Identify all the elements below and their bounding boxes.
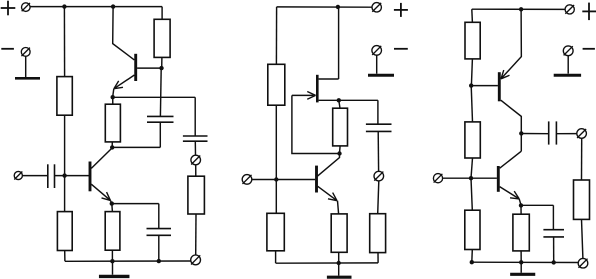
arrow Q2 emitter NPN — [114, 81, 123, 89]
wire R15 bottom to rail — [520, 251, 522, 262]
resistor R7 divider top circuit 2 — [268, 64, 285, 105]
wire rail to ground circuit 2 — [338, 263, 340, 276]
wire Q2 collector to rail — [113, 7, 135, 60]
wire emitter node to C3 — [112, 203, 159, 205]
arrow Q3 emitter NPN — [328, 193, 337, 201]
wire R13 bottom to input node — [471, 158, 473, 178]
transistor Q5 base bar — [498, 72, 501, 101]
wire Q2 emitter diagonal — [114, 75, 134, 89]
capacitor C3 bypass top plate — [147, 228, 172, 230]
wire Q1 collector diagonal — [91, 148, 112, 169]
capacitor C8 bypass bottom plate — [543, 236, 564, 238]
node C8/rail junction — [552, 260, 556, 264]
capacitor C5 output top plate — [366, 123, 392, 125]
wire Q5 emitter to rail — [501, 9, 521, 79]
node Q1 collector junction — [110, 145, 114, 149]
resistor R11 load circuit 2 — [370, 214, 386, 253]
wire rail corner to R3 top — [161, 7, 163, 20]
resistor R12 divider top circuit 3 — [465, 22, 480, 59]
wire Q1 emitter diagonal — [91, 184, 110, 200]
wire Q5 base lead — [471, 85, 498, 87]
wire J1 gate lead — [292, 94, 314, 96]
resistor R1 divider top circuit 1 — [57, 77, 72, 116]
capacitor C5 output bottom plate — [366, 130, 392, 132]
terminal -U supply circuit 2 — [372, 46, 382, 56]
wire output terminal to R16 — [581, 138, 583, 180]
wire emitter node to R15 top — [520, 205, 522, 214]
ground circuit 3 — [510, 273, 535, 276]
node output junction circuit 3 — [519, 131, 523, 135]
resistor R2 divider bottom circuit 1 — [57, 212, 72, 251]
wire R8 bottom to rail — [275, 251, 277, 263]
node base/divider junction circuit 1 — [62, 173, 66, 177]
wire -U to ground circuit 3 — [567, 56, 569, 74]
node R5/rail junction — [110, 259, 114, 263]
node X Q2 base junction — [159, 66, 163, 70]
resistor R3 collector load circuit 1 — [154, 19, 170, 57]
wire C3 bottom to rail — [158, 235, 160, 261]
resistor R10 emitter circuit 2 — [331, 214, 347, 252]
transistor Q3 base bar — [315, 166, 318, 193]
node Q6 emitter junction — [519, 203, 523, 207]
ground at -U terminal circuit 2 — [368, 74, 394, 77]
capacitor C3 bypass bottom plate — [147, 234, 172, 236]
terminal output ground circuit 3 — [578, 258, 588, 268]
wire input to Q6 base — [443, 177, 497, 179]
terminal output circuit 3 — [577, 129, 587, 139]
ground at -U terminal circuit 1 — [15, 77, 40, 80]
arrow Q6 emitter NPN — [510, 191, 519, 199]
JFET J1 channel bar — [316, 75, 319, 103]
capacitor C2 bootstrap bottom plate — [147, 121, 174, 123]
wire top rail circuit 1 — [30, 6, 162, 8]
wire R6 bottom to ground terminal — [195, 214, 197, 255]
wire output node to C7 — [521, 133, 548, 135]
terminal +U supply circuit 2 — [372, 3, 381, 12]
wire rail to ground circuit 3 — [520, 262, 522, 273]
wire drain to rail — [338, 7, 340, 79]
wire R11 bottom to rail — [377, 253, 379, 263]
arrow Q1 emitter NPN — [102, 192, 111, 200]
plus sign circuit 3 supply — [582, 3, 596, 21]
node R14/rail junction circuit 3 — [470, 260, 474, 264]
resistor R4 bootstrap middle circuit 1 — [105, 104, 120, 142]
plus sign circuit 2 supply — [394, 3, 408, 17]
arrow J1 gate JFET — [307, 92, 315, 100]
wire Q6 emitter diagonal — [500, 187, 520, 199]
arrow Q5 emitter PNP — [501, 70, 510, 79]
transistor Q2 base bar — [134, 54, 137, 81]
terminal input circuit 2 — [242, 175, 252, 185]
wire Q5 collector down — [501, 100, 522, 151]
wire gate feedback loop — [292, 95, 340, 153]
node Q1 emitter junction — [110, 201, 114, 205]
terminal input circuit 3 — [433, 174, 442, 183]
resistor R14 divider bottom circuit 3 — [465, 210, 480, 249]
transistor Q1 base bar — [89, 162, 92, 192]
ground at -U terminal circuit 3 — [554, 74, 581, 77]
capacitor C4 output bottom plate — [183, 140, 208, 142]
wire rail to R12 top — [471, 9, 474, 22]
wire C4 to output terminal — [194, 141, 196, 155]
wire bottom rail circuit 3 — [472, 261, 578, 263]
resistor R6 load circuit 1 — [188, 176, 205, 214]
terminal input circuit 1 — [14, 171, 22, 179]
wire C5 to output terminal — [377, 131, 379, 171]
wire R10 bottom to rail — [338, 252, 340, 263]
ground circuit 2 — [327, 276, 352, 279]
wire Q6 collector diagonal — [500, 151, 522, 168]
transistor Q6 base bar — [497, 166, 500, 192]
capacitor C7 output right plate — [555, 121, 557, 144]
resistor R9 source-collector circuit 2 — [333, 108, 348, 146]
wire output terminal to R11 — [378, 181, 379, 214]
wire bottom rail circuit 2 — [276, 262, 379, 264]
node Q3 collector junction — [337, 151, 341, 155]
wire top rail circuit 2 — [277, 6, 372, 8]
node Q2 emitter junction — [111, 95, 115, 99]
node rail/Q2 collector junction circuit 1 — [111, 4, 115, 8]
wire C7 to output terminal — [556, 133, 577, 135]
wire emitter node to C8 — [521, 204, 553, 206]
wire R5 bottom to rail — [111, 250, 113, 261]
node rail/R1 junction circuit 1 — [62, 4, 66, 8]
wire top rail circuit 3 — [472, 8, 565, 10]
capacitor C1 input left plate — [47, 164, 49, 188]
node rail/Q5 emitter junction circuit 3 — [519, 7, 523, 11]
wire rail to R7 top — [275, 7, 277, 64]
wire input to Q3 base — [252, 179, 315, 181]
terminal output circuit 2 — [374, 171, 384, 181]
minus sign circuit 2 supply — [394, 48, 408, 50]
wire input to C1 — [22, 175, 47, 177]
capacitor C7 output left plate — [548, 121, 550, 144]
node base/divider junction circuit 2 — [274, 177, 278, 181]
wire down to C4 — [194, 97, 196, 136]
wire Q3 emitter diagonal — [318, 186, 337, 200]
wire C2 to Q1 collector node — [112, 146, 160, 148]
node C3/rail junction — [157, 259, 161, 263]
wire R12 bottom to Q5 base node — [471, 59, 472, 86]
wire Q6 emitter stub — [519, 199, 521, 205]
wire R9 bottom stub — [339, 146, 342, 153]
resistor R5 emitter circuit 1 — [105, 212, 120, 251]
node ground junction circuit 2 — [337, 261, 341, 265]
wire J1 drain lead — [319, 78, 339, 80]
terminal +U supply circuit 1 — [22, 3, 31, 12]
node Q5 base junction — [469, 83, 473, 87]
wire R7 bottom to R8 top — [275, 105, 277, 213]
terminal -U supply circuit 3 — [563, 46, 573, 56]
minus sign circuit 1 supply — [1, 48, 14, 50]
plus sign circuit 1 supply — [1, 1, 16, 16]
capacitor C2 bootstrap top plate — [147, 115, 174, 117]
node R15/rail junction — [519, 260, 523, 264]
wire node X to C2 top — [159, 68, 162, 116]
wire -U to ground circuit 1 — [25, 56, 27, 77]
minus sign circuit 3 supply — [583, 48, 595, 50]
resistor R13 divider middle circuit 3 — [465, 122, 480, 158]
wire R3 bottom to node X — [161, 57, 163, 68]
resistor R16 load circuit 3 — [574, 180, 590, 219]
wire rail to R1 top — [63, 7, 65, 77]
wire R16 bottom to ground terminal — [582, 219, 583, 258]
resistor R15 emitter circuit 3 — [513, 214, 529, 251]
wire down to C8 top — [552, 205, 554, 229]
wire down to C3 top — [158, 204, 160, 229]
wire Q3 emitter to R10 — [338, 201, 339, 214]
node J1 source junction — [337, 98, 341, 102]
wire to R14 top — [471, 178, 472, 210]
wire bottom rail circuit 1 — [65, 260, 191, 262]
wire Q2 base lead — [137, 67, 161, 69]
node rail/drain junction circuit 2 — [336, 5, 340, 9]
wire Q2 emitter stub — [113, 89, 114, 97]
wire down to C5 — [377, 100, 379, 124]
terminal -U supply circuit 1 — [21, 48, 30, 57]
wire to R13 top — [471, 86, 472, 122]
wire output terminal to R6 — [195, 165, 197, 176]
node Q6 base/input junction — [469, 176, 473, 180]
wire rail to ground circuit 1 — [112, 261, 114, 275]
capacitor C4 output top plate — [183, 135, 208, 137]
wire emitter node to R5 top — [111, 204, 114, 212]
wire R1 bottom to R2 top — [64, 115, 66, 211]
wire R2 bottom to bottom rail — [64, 251, 66, 262]
wire Q3 collector diagonal — [317, 154, 339, 177]
capacitor C8 bypass top plate — [543, 229, 564, 231]
wire R4 bottom stub — [111, 142, 113, 148]
wire C8 bottom to rail — [553, 237, 555, 262]
terminal output ground circuit 1 — [191, 255, 201, 265]
ground circuit 1 — [99, 275, 130, 278]
wire Q1 emitter stub — [110, 200, 111, 203]
terminal output circuit 1 — [191, 155, 201, 165]
wire C2 bottom down — [159, 122, 161, 147]
terminal +U supply circuit 3 — [565, 5, 574, 14]
wire J1 source lead — [319, 99, 339, 101]
wire source node to output branch — [339, 99, 378, 101]
resistor R8 divider bottom circuit 2 — [267, 213, 284, 251]
capacitor C1 input right plate — [54, 164, 56, 188]
wire R14 bottom to rail — [471, 250, 474, 263]
wire -U to ground circuit 2 — [376, 55, 378, 73]
wire Q2 emitter to output branch — [113, 96, 196, 98]
wire Q2 emitter to R4 top — [112, 97, 114, 104]
wire source to R9 top — [339, 100, 340, 108]
wire C1 to Q1 base — [55, 175, 90, 177]
